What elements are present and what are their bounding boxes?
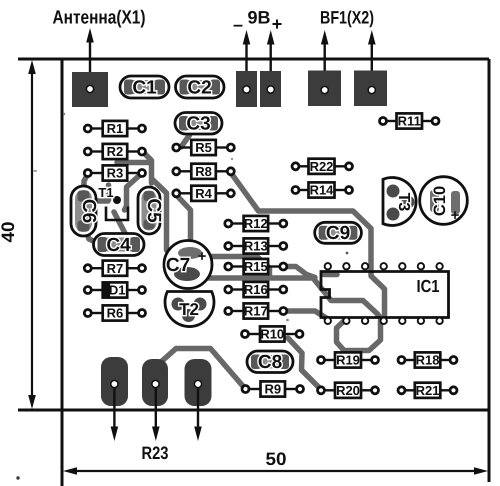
svg-text:C10: C10 [431, 186, 449, 216]
resistor R5 [173, 140, 235, 155]
op-amp IC1 body [321, 272, 449, 318]
IC1 pins bottom row [325, 318, 443, 324]
capacitor C2 [176, 76, 225, 99]
svg-text:D1: D1 [109, 283, 126, 298]
svg-text:T3: T3 [395, 193, 412, 212]
resistor R13 [225, 238, 287, 253]
dimension line 40 (left) [28, 60, 36, 409]
svg-text:Антенна(X1): Антенна(X1) [53, 8, 146, 29]
svg-text:R12: R12 [244, 216, 268, 231]
resistor R2 [84, 144, 145, 159]
resistor R11 [380, 113, 440, 128]
capacitor C6 (vertical) [71, 186, 99, 236]
svg-text:C3: C3 [186, 114, 210, 135]
transistor T1 [98, 185, 128, 220]
resistor R14 [292, 182, 353, 197]
resistor R15 [225, 259, 287, 274]
wire R3 left pad to C6 top pad [84, 174, 88, 194]
resistor R9 [242, 381, 304, 396]
arrow 9V plus [267, 30, 275, 89]
diode D1 [84, 282, 145, 297]
svg-text:R6: R6 [107, 306, 124, 321]
wire R8 right pad to big bus into IC1 [231, 173, 385, 316]
svg-text:R5: R5 [195, 140, 212, 155]
resistor R10 [242, 326, 304, 341]
svg-text:R7: R7 [107, 261, 124, 276]
svg-text:T1: T1 [98, 185, 113, 200]
resistor R19 [318, 352, 379, 367]
svg-text:R17: R17 [244, 304, 268, 319]
svg-text:R13: R13 [244, 239, 268, 254]
pad R23 c [185, 359, 212, 406]
svg-text:BF1(X2): BF1(X2) [320, 8, 374, 28]
svg-text:R11: R11 [398, 114, 421, 129]
resistor R12 [225, 216, 287, 231]
wire C6 bottom pad to C4 left pad [84, 224, 103, 246]
wire R17 right pad to IC1 pin [283, 311, 328, 319]
wire C7 bottom pad to IC1 interior to bottom pin [190, 278, 381, 319]
capacitor C8 [247, 351, 293, 373]
pad R23 a [101, 357, 128, 406]
svg-text:R10: R10 [260, 327, 284, 342]
scan specks [16, 113, 348, 480]
svg-text:T2: T2 [179, 300, 199, 319]
resistor R22 [292, 159, 353, 174]
arrow 9V minus [243, 30, 251, 89]
wire C7 plus to merge point [196, 257, 270, 277]
capacitor C7 (round electrolytic) [164, 241, 212, 289]
svg-text:C7: C7 [166, 255, 190, 276]
pad BF1 b [354, 71, 387, 107]
svg-text:R21: R21 [416, 383, 440, 398]
arrow R23 a [111, 388, 119, 441]
svg-text:R2: R2 [107, 144, 124, 159]
pad BF1 a [308, 71, 341, 107]
svg-text:C8: C8 [258, 352, 282, 373]
wire bottom pad 2 to R9 left pad [162, 349, 245, 389]
wire R3 right pad to T1 right pad [125, 174, 142, 210]
wire R3 area down to C7 via vertical x=167 [153, 180, 167, 250]
resistor R7 [84, 261, 145, 276]
pad 9V minus [236, 71, 257, 107]
arrow R23 c [194, 388, 202, 441]
IC1 pins top row [325, 263, 443, 269]
wire stub under R2 [117, 160, 149, 166]
resistor R8 [173, 164, 235, 179]
resistor R6 [84, 305, 145, 320]
svg-text:C5: C5 [143, 198, 164, 223]
svg-text:R19: R19 [336, 353, 360, 368]
capacitor C3 [175, 113, 222, 135]
wire C6 top pad to T1 left pad [84, 199, 108, 201]
svg-text:R3: R3 [107, 166, 124, 181]
resistor R21 [398, 383, 457, 398]
resistor R18 [398, 352, 457, 367]
resistor R3 [84, 165, 145, 180]
capacitor C5 (vertical) [138, 187, 164, 234]
pad 9V plus [260, 71, 281, 107]
wire R10 right pad to R20 left pad [288, 338, 321, 389]
board right edge with extension down [488, 59, 491, 482]
svg-text:R9: R9 [264, 382, 281, 397]
dimension line 50 (bottom) [63, 467, 488, 475]
transistor T3 (flat left half-disc) [383, 178, 416, 226]
svg-text:50: 50 [266, 449, 287, 469]
svg-text:40: 40 [0, 222, 18, 243]
capacitor C10 (round electrolytic) [420, 177, 468, 225]
svg-text:IC1: IC1 [417, 276, 440, 296]
svg-text:C4: C4 [106, 235, 131, 256]
wire T1 to C4 right pad [114, 212, 127, 237]
svg-text:R14: R14 [310, 183, 335, 198]
resistor R17 [225, 303, 287, 318]
wire stub inside IC1 top left [324, 272, 337, 278]
svg-text:9В: 9В [248, 8, 271, 28]
arrow BF1 a [321, 30, 329, 89]
svg-text:R18: R18 [416, 353, 440, 368]
wire loop below IC1 between pins [337, 320, 381, 351]
svg-text:C2: C2 [187, 78, 211, 99]
wire C3 left pad to R5 [181, 135, 190, 147]
capacitor C9 [315, 222, 362, 244]
svg-text:R8: R8 [195, 164, 212, 179]
resistor R1 [84, 121, 145, 136]
resistor R16 [225, 282, 287, 297]
board top edge with extension [18, 58, 489, 61]
pad antenna X1 [72, 72, 108, 107]
svg-text:C6: C6 [78, 199, 99, 223]
wire R2 right pad to C5 top pad [142, 151, 152, 183]
wire R4 left pad to C7 top pad [176, 195, 190, 251]
capacitor C4 [94, 234, 145, 257]
svg-text:–: – [233, 15, 243, 35]
svg-text:R22: R22 [310, 159, 334, 174]
resistor R4 [173, 186, 235, 201]
capacitor C1 [120, 76, 169, 99]
resistor R20 [318, 383, 379, 398]
svg-text:R1: R1 [107, 121, 124, 136]
wire R15 right pad to IC1 left edge [283, 267, 315, 278]
svg-text:R23: R23 [142, 443, 169, 463]
svg-text:+: + [198, 248, 207, 265]
svg-text:R20: R20 [336, 383, 360, 398]
pad R23 b [142, 359, 168, 406]
svg-text:C9: C9 [326, 223, 350, 244]
arrow BF1 b [368, 30, 376, 89]
svg-text:R4: R4 [195, 186, 212, 201]
transistor T2 (flat top half-disc) [165, 292, 214, 327]
svg-text:+: + [272, 14, 283, 34]
board left edge with extension down [61, 59, 64, 486]
svg-text:C1: C1 [132, 78, 157, 99]
wire T1 left vertical stub [106, 185, 112, 200]
board bottom edge with extension [18, 409, 489, 412]
arrow R23 b [152, 388, 160, 441]
svg-text:R16: R16 [244, 282, 268, 297]
arrow antenna X1 [86, 28, 94, 89]
svg-text:R15: R15 [244, 259, 268, 274]
svg-text:+: + [451, 207, 460, 224]
